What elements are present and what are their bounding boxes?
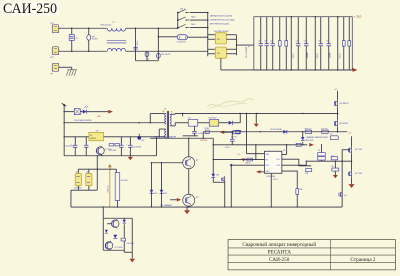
svg-text:С6: С6: [318, 40, 320, 42]
svg-text:VD8 1N4007/LM7805: VD8 1N4007/LM7805: [74, 120, 91, 122]
svg-text:+17: +17: [237, 154, 240, 156]
svg-text:VD17: VD17: [163, 193, 167, 195]
svg-text:Q12: Q12: [344, 195, 347, 197]
svg-text:С2-С5 470/400: С2-С5 470/400: [246, 47, 248, 59]
svg-text:С6: С6: [304, 40, 306, 42]
svg-text:R34: R34: [299, 189, 302, 191]
svg-text:HL2: HL2: [141, 140, 144, 142]
svg-text:С35: С35: [331, 166, 334, 168]
svg-text:С6: С6: [296, 40, 298, 42]
svg-text:VD1 KBPC3510W: VD1 KBPC3510W: [214, 31, 229, 33]
svg-text:R42: R42: [331, 156, 334, 158]
svg-text:U4: U4: [86, 172, 88, 174]
svg-text:HL1: HL1: [216, 174, 219, 176]
svg-text:VD14 4148: VD14 4148: [305, 140, 314, 142]
svg-text:Q3: Q3: [196, 197, 199, 199]
svg-text:ТВ30-04-10мГ: ТВ30-04-10мГ: [100, 24, 111, 26]
svg-text:С2: С2: [270, 40, 272, 42]
svg-text:С34 47/50: С34 47/50: [126, 243, 134, 245]
svg-text:Q11 IRFZ24: Q11 IRFZ24: [339, 123, 348, 125]
svg-text:R22 3.3к: R22 3.3к: [108, 185, 110, 192]
svg-text:PC817: PC817: [204, 128, 209, 130]
svg-text:VD2: VD2: [217, 53, 220, 55]
svg-text:Страница 2: Страница 2: [350, 257, 376, 263]
svg-text:СИЛОВОЙ ПУСК БЛ.2(-310В): СИЛОВОЙ ПУСК БЛ.2(-310В): [210, 19, 235, 22]
svg-text:САИ-250: САИ-250: [269, 257, 290, 263]
svg-text:R30 1к: R30 1к: [245, 162, 251, 164]
svg-text:С1: С1: [75, 38, 77, 40]
svg-text:VD16: VD16: [153, 193, 157, 195]
svg-text:С6: С6: [326, 40, 328, 42]
svg-text:СТ20КА ФИЛЬТР СНАББЕР: СТ20КА ФИЛЬТР СНАББЕР: [154, 135, 177, 138]
svg-text:С31 1н: С31 1н: [273, 179, 279, 181]
svg-text:С26 47/50В: С26 47/50В: [133, 147, 141, 149]
svg-text:К1 JQX-115: К1 JQX-115: [177, 41, 186, 43]
svg-text:С29 1000: С29 1000: [120, 180, 127, 182]
svg-text:С3: С3: [148, 58, 150, 60]
svg-text:GND: GND: [265, 171, 270, 173]
svg-text:U3: U3: [76, 172, 78, 174]
svg-text:Q5 C1815: Q5 C1815: [114, 247, 122, 249]
svg-text:+ 310: + 310: [354, 14, 362, 18]
svg-text:R40 510: R40 510: [321, 128, 327, 130]
svg-text:Сварочный аппарат инверторный: Сварочный аппарат инверторный: [242, 241, 316, 248]
svg-text:Q10 IRFZ24: Q10 IRFZ24: [339, 103, 348, 105]
svg-text:Q2: Q2: [196, 159, 199, 161]
svg-text:С24 2200/16: С24 2200/16: [65, 145, 74, 147]
svg-text:VD1: VD1: [217, 39, 220, 41]
svg-text:С2: С2: [264, 40, 266, 42]
svg-text:С2: С2: [258, 40, 260, 42]
svg-text:САИ-250: САИ-250: [3, 1, 57, 17]
svg-text:R2-R5: R2-R5: [339, 53, 341, 58]
svg-text:С6,С7: С6,С7: [293, 53, 295, 58]
svg-text:LNK304: LNK304: [90, 138, 96, 140]
svg-text:470/400: 470/400: [307, 52, 309, 58]
svg-text:U5: U5: [283, 150, 285, 152]
svg-text:R36: R36: [305, 173, 308, 175]
svg-text:U3 PC817: U3 PC817: [208, 117, 216, 119]
svg-text:R26 300: R26 300: [200, 140, 207, 142]
svg-text:Q9 С945: Q9 С945: [355, 173, 362, 175]
svg-text:ДРАЙВЕР ЗАТВОРОВ IGBT: ДРАЙВЕР ЗАТВОРОВ IGBT: [306, 136, 328, 139]
svg-text:D11 4148: D11 4148: [109, 150, 116, 152]
svg-text:10D471: 10D471: [92, 39, 98, 41]
svg-text:С2 0.1к: С2 0.1к: [137, 41, 139, 47]
svg-text:РЕСАНТА: РЕСАНТА: [268, 249, 292, 255]
svg-text:+: +: [248, 45, 250, 49]
svg-text:U2: U2: [90, 135, 92, 137]
svg-text:L10: L10: [188, 117, 191, 119]
svg-text:470/400: 470/400: [329, 52, 331, 58]
svg-text:К2: К2: [330, 134, 332, 136]
svg-text:С22 1н: С22 1н: [225, 147, 231, 149]
svg-text:RV2 10D471: RV2 10D471: [161, 54, 171, 56]
svg-text:XP1: XP1: [50, 23, 53, 25]
svg-text:С8,С9: С8,С9: [317, 53, 319, 58]
svg-text:VD13 1N4148: VD13 1N4148: [270, 129, 281, 131]
svg-text:ВЕНТ.РЕЛЕ БЛ.3(-24В): ВЕНТ.РЕЛЕ БЛ.3(-24В): [210, 24, 230, 26]
svg-text:R31 СНАББЕР: R31 СНАББЕР: [160, 204, 172, 207]
svg-text:R39 510: R39 510: [305, 128, 311, 130]
svg-text:XP2: XP2: [50, 57, 53, 59]
svg-text:ЗАРЯД(ПУСК) БЛ.1(-310В): ЗАРЯД(ПУСК) БЛ.1(-310В): [210, 15, 233, 18]
svg-text:Q8 С945: Q8 С945: [355, 149, 362, 151]
svg-text:ТОР: ТОР: [96, 130, 99, 132]
